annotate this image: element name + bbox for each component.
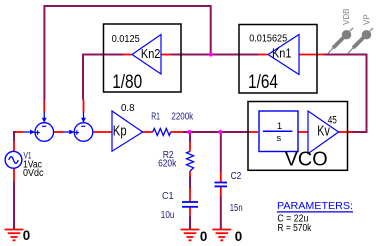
svg-text:R1: R1 xyxy=(151,112,160,123)
svg-text:0: 0 xyxy=(23,228,30,243)
svg-text:s: s xyxy=(276,133,281,144)
svg-text:10u: 10u xyxy=(161,210,175,221)
svg-text:2200k: 2200k xyxy=(171,112,193,123)
svg-text:V1: V1 xyxy=(24,150,32,161)
svg-text:0: 0 xyxy=(200,229,207,244)
svg-text:VP: VP xyxy=(362,14,371,25)
svg-text:0.8: 0.8 xyxy=(121,103,135,114)
svg-text:VDB: VDB xyxy=(342,9,351,25)
svg-text:Kn1: Kn1 xyxy=(272,46,292,61)
svg-text:15n: 15n xyxy=(230,203,243,214)
svg-text:Kv: Kv xyxy=(317,124,330,140)
svg-text:1/64: 1/64 xyxy=(248,72,278,93)
svg-text:1: 1 xyxy=(277,121,282,132)
svg-text:R = 570k: R = 570k xyxy=(277,223,312,234)
svg-text:0.0125: 0.0125 xyxy=(112,34,141,45)
svg-text:C2: C2 xyxy=(231,171,242,182)
svg-text:1/80: 1/80 xyxy=(112,72,142,93)
svg-text:0Vdc: 0Vdc xyxy=(23,168,44,179)
svg-text:C1: C1 xyxy=(162,191,174,202)
svg-text:0.015625: 0.015625 xyxy=(249,34,287,45)
svg-text:Kn2: Kn2 xyxy=(141,46,161,61)
svg-text:Kp: Kp xyxy=(113,123,127,139)
svg-text:VCO: VCO xyxy=(285,149,328,171)
svg-text:0: 0 xyxy=(235,229,242,244)
svg-text:PARAMETERS:: PARAMETERS: xyxy=(277,200,353,212)
svg-text:620k: 620k xyxy=(158,159,176,170)
